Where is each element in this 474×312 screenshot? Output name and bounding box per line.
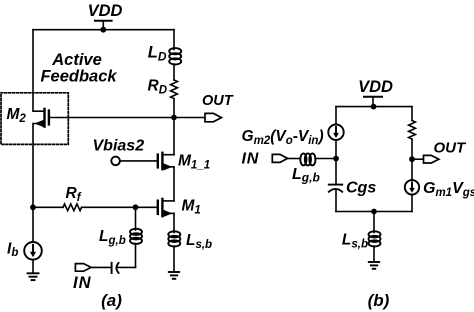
VDD power symbol (b) (364, 97, 382, 107)
svg-text:Lg,b: Lg,b (292, 166, 320, 185)
wire: Lg,b bottom to coupling cap (118, 266, 136, 268)
svg-text:VDD: VDD (88, 2, 123, 20)
node: left junction dot (30, 204, 36, 210)
svg-text:LD: LD (148, 44, 167, 64)
transistor M2 (35, 109, 49, 127)
node: OUT junction dot (a) (171, 115, 177, 121)
ground under Ls,b (a) (169, 272, 179, 279)
svg-text:Ls,b: Ls,b (186, 232, 212, 251)
wire: left rail upper (VDD to M2 drain) (33, 30, 45, 112)
port OUT (b) (424, 155, 439, 163)
terminal: Vbias2 circle (111, 157, 120, 166)
svg-text:M1: M1 (182, 198, 201, 217)
wire: IN port to Lg,b (b) (288, 158, 301, 160)
svg-text:Feedback: Feedback (40, 67, 117, 85)
svg-text:Ls,b: Ls,b (342, 232, 368, 251)
inductor Lg,b (b) horizontal (300, 153, 336, 165)
inductor Ls,b (b) (369, 212, 381, 262)
port OUT (a) (205, 113, 221, 121)
svg-text:IN: IN (73, 274, 92, 292)
wire: OUT stub (a) (174, 117, 205, 119)
svg-text:M2: M2 (7, 106, 27, 125)
svg-text:(b): (b) (368, 291, 390, 310)
svg-text:OUT: OUT (202, 93, 234, 109)
node: gate junction dot (b) (333, 156, 339, 162)
svg-text:RD: RD (147, 78, 167, 97)
dashed box around M2 (1, 93, 68, 145)
svg-text:Rf: Rf (66, 185, 82, 204)
wire: M2 gate to OUT node (49, 117, 174, 119)
resistor Rf (63, 204, 82, 211)
current source Ib (24, 242, 42, 273)
transistor M1 (158, 199, 174, 217)
wire: left branch top (b) (335, 107, 337, 125)
svg-text:VDD: VDD (358, 78, 393, 96)
wire: RD to M1_1 drain (173, 99, 175, 155)
inductor Ls,b (a) (168, 213, 180, 271)
capacitor: input coupling cap (112, 263, 119, 273)
node: M1 gate junction dot (133, 204, 139, 210)
wire: OUT stub (b) (412, 158, 424, 160)
wire: M1_1 source to M1 drain (173, 167, 175, 201)
svg-text:OUT: OUT (434, 140, 468, 157)
resistor RD (171, 80, 178, 99)
node: VDD junction dot (a) (100, 27, 106, 33)
svg-text:Lg,b: Lg,b (99, 228, 126, 247)
svg-text:Active: Active (51, 51, 102, 69)
svg-text:IN: IN (242, 151, 260, 168)
inductor Lg,b (a) (130, 207, 142, 267)
ground under Ib (28, 273, 39, 280)
port IN (b) (272, 154, 287, 162)
current source Gm1 (405, 180, 419, 211)
capacitor Cgs (329, 185, 342, 212)
transistor M1_1 (158, 153, 174, 171)
inductor LD (169, 30, 181, 80)
node: OUT junction dot (b) (409, 156, 415, 162)
wire: right branch top (b) (411, 107, 413, 121)
wire: feedback net (Rf row) (33, 206, 63, 208)
VDD power symbol (a) (95, 21, 112, 30)
wire: IN port to cap (91, 266, 111, 268)
node: VDD junction dot (b) (371, 104, 377, 110)
wire: resistor to Gm1 (411, 139, 413, 180)
current source Gm2 (328, 125, 343, 140)
wire: left rail lower (M2 source to Ib) (33, 124, 45, 243)
wire: bottom rail (b) (336, 211, 412, 213)
svg-text:Ib: Ib (7, 240, 18, 259)
svg-text:Gm1Vgs: Gm1Vgs (423, 180, 474, 199)
ground under Ls,b (b) (369, 262, 379, 269)
node: source junction dot (b) (371, 209, 377, 215)
resistor (b right branch) (409, 121, 416, 140)
svg-text:Cgs: Cgs (346, 180, 376, 197)
wire: top rail (a) (33, 29, 174, 31)
wire: Vbias2 to M1_1 gate (120, 160, 158, 162)
port IN (a) (75, 264, 91, 272)
wire: top rail (b) (336, 106, 412, 108)
svg-text:(a): (a) (101, 291, 122, 310)
svg-text:M1_1: M1_1 (178, 153, 210, 172)
wire: Gm2 to Cgs (335, 140, 337, 185)
svg-text:Gm2(Vo-Vin): Gm2(Vo-Vin) (242, 128, 324, 147)
svg-text:Vbias2: Vbias2 (93, 138, 145, 155)
wire: Rf to M1 gate (82, 206, 158, 208)
